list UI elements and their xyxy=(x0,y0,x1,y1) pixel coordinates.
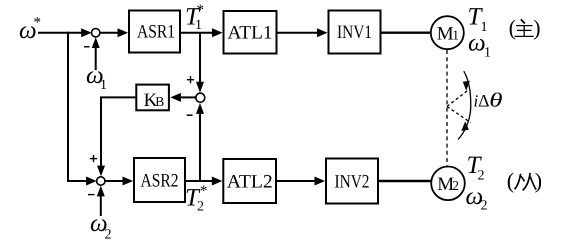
node T1* torque reference label xyxy=(185,3,204,33)
wire T2* feedback up into J2 xyxy=(196,103,204,181)
svg-text:*: * xyxy=(34,15,42,31)
wire J2 to KB block xyxy=(170,93,196,102)
angle reference dashed ray lower xyxy=(447,107,471,123)
wire J3 to ASR2 xyxy=(105,177,133,186)
svg-text:B: B xyxy=(155,94,164,109)
junction J1 summing circle xyxy=(92,29,100,37)
svg-text:*: * xyxy=(200,183,208,199)
angle arc double arrow xyxy=(458,71,471,139)
node T2* torque reference label xyxy=(185,183,208,214)
svg-text:1: 1 xyxy=(100,78,107,93)
minus sign at J3 xyxy=(88,194,95,196)
wire branch T1* down to junction J2 xyxy=(196,33,204,93)
motor M2 circle xyxy=(431,167,465,201)
plus sign above J2 xyxy=(187,76,194,83)
svg-text:ASR2: ASR2 xyxy=(141,170,179,191)
node omega1 output speed label xyxy=(468,30,491,61)
svg-text:): ) xyxy=(533,15,540,40)
wire INV1 to motor M1 xyxy=(382,32,432,34)
minus sign at J1 xyxy=(84,46,90,48)
svg-text:*: * xyxy=(197,3,205,19)
block ATL2 xyxy=(223,159,276,203)
svg-text:θ: θ xyxy=(489,90,503,112)
svg-text:Δ: Δ xyxy=(478,91,489,111)
wire branch omega* down to junction J3 xyxy=(68,32,97,186)
motor M1 circle xyxy=(431,16,464,49)
node T1 output torque label xyxy=(468,4,488,35)
svg-text:(: ( xyxy=(507,168,514,193)
svg-text:ATL2: ATL2 xyxy=(227,171,273,192)
svg-text:INV1: INV1 xyxy=(337,22,372,43)
minus sign below J2 xyxy=(187,114,193,116)
block ATL1 xyxy=(224,11,277,54)
block KB balance coefficient xyxy=(136,85,169,111)
svg-text:2: 2 xyxy=(452,178,459,193)
wire omega2 feedback arrow into J3 xyxy=(97,186,105,216)
label (cong) follower motor xyxy=(507,168,542,193)
svg-text:ASR1: ASR1 xyxy=(137,21,175,42)
wire ATL1 to INV1 xyxy=(278,28,328,37)
node omega2 feedback label xyxy=(90,210,112,243)
block ASR2 speed regulator xyxy=(134,158,185,202)
block INV1 inverter xyxy=(329,11,381,54)
svg-text:1: 1 xyxy=(452,27,459,42)
svg-text:1: 1 xyxy=(195,18,202,33)
svg-text:1: 1 xyxy=(484,46,491,61)
svg-text:2: 2 xyxy=(478,169,485,184)
angle reference dashed ray upper xyxy=(447,89,470,107)
junction J2 torque-difference summing circle xyxy=(196,93,205,102)
node i-delta-theta angle difference label xyxy=(474,90,503,112)
label (zhu) main motor xyxy=(509,15,541,40)
wire J1 to ASR1 xyxy=(100,28,128,37)
wire INV2 to motor M2 xyxy=(378,180,432,183)
node omega2 output speed label xyxy=(466,183,488,213)
svg-text:M: M xyxy=(437,23,454,44)
block ASR1 speed regulator xyxy=(129,11,180,53)
svg-text:ATL1: ATL1 xyxy=(228,22,273,43)
svg-text:2: 2 xyxy=(197,200,204,215)
svg-text:ω: ω xyxy=(468,30,486,57)
junction J3 summing circle xyxy=(97,177,105,185)
wire ASR1 to ATL1 xyxy=(181,28,223,37)
svg-text:2: 2 xyxy=(105,228,112,243)
wire dashed shaft coupling M1 to M2 xyxy=(446,50,448,166)
wire ASR2 to ATL2 xyxy=(186,177,222,186)
svg-text:2: 2 xyxy=(481,199,488,214)
wire KB output down to junction J3 xyxy=(97,97,136,176)
block INV2 inverter xyxy=(326,159,378,204)
svg-text:INV2: INV2 xyxy=(335,171,370,192)
wire omega1 feedback arrow into J1 xyxy=(92,37,100,70)
plus sign above J3 xyxy=(90,155,97,162)
node omega1 feedback label xyxy=(86,62,107,93)
node omega* speed reference label xyxy=(19,15,41,44)
wire omega* to junction J1 xyxy=(38,28,92,37)
node T2 output torque label xyxy=(467,152,485,184)
wire ATL2 to INV2 xyxy=(277,177,325,186)
